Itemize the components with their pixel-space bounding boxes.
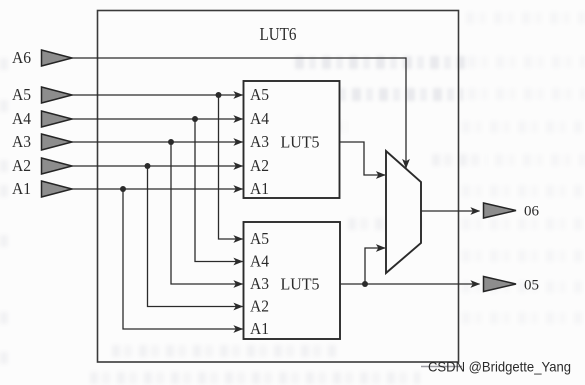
svg-text:A4: A4	[250, 252, 269, 271]
wire A6 to mux select	[71, 58, 406, 168]
wire mux output to O6 buffer	[421, 210, 480, 212]
svg-text:05: 05	[524, 278, 539, 294]
svg-text:A1: A1	[250, 179, 269, 198]
output buffer O6	[484, 203, 517, 218]
wire A3 to upper LUT5 pin A3	[71, 141, 243, 143]
svg-text:06: 06	[524, 204, 540, 220]
svg-text:A1: A1	[250, 319, 269, 338]
svg-text:A3: A3	[250, 274, 269, 293]
svg-text:A4: A4	[12, 109, 31, 128]
junction dot A4	[192, 116, 198, 122]
junction dot A1	[120, 186, 126, 192]
svg-text:A2: A2	[12, 156, 31, 175]
wire A5 branch to lower LUT5 pin A5	[219, 95, 243, 239]
output buffer O5	[484, 277, 517, 292]
junction dot A3	[168, 139, 174, 145]
mux	[386, 151, 421, 273]
input buffer A1	[42, 181, 73, 197]
svg-text:LUT5: LUT5	[281, 133, 320, 152]
junction dot A5	[216, 92, 222, 98]
svg-text:A5: A5	[250, 229, 269, 248]
decorative background ghost text layer	[466, 12, 585, 24]
svg-text:A6: A6	[12, 48, 31, 67]
svg-text:A1: A1	[12, 179, 31, 198]
svg-text:LUT5: LUT5	[281, 275, 320, 294]
svg-text:A5: A5	[250, 85, 269, 104]
lower LUT5 block	[244, 222, 341, 339]
wire branch to mux input I0	[365, 248, 385, 284]
watermark strikethrough	[421, 366, 462, 368]
svg-text:A2: A2	[250, 297, 269, 316]
input buffer A2	[42, 158, 73, 174]
svg-text:LUT6: LUT6	[260, 24, 297, 44]
upper LUT5 block	[244, 81, 340, 198]
wire A3 branch to lower LUT5 pin A3	[171, 142, 243, 284]
junction dot on O5 wire	[362, 281, 368, 287]
wire A4 branch to lower LUT5 pin A4	[195, 119, 243, 262]
wire A2 to upper LUT5 pin A2	[71, 165, 243, 167]
wire A5 to upper LUT5 pin A5	[71, 94, 243, 96]
svg-text:A4: A4	[250, 109, 269, 128]
wire A1 branch to lower LUT5 pin A1	[123, 189, 243, 329]
svg-text:A2: A2	[250, 156, 269, 175]
wire lower LUT5 output to O5 buffer	[340, 283, 480, 285]
junction dot A2	[145, 163, 151, 169]
wire A2 branch to lower LUT5 pin A2	[148, 166, 243, 307]
outer block LUT6	[98, 11, 459, 363]
input buffer A5	[42, 87, 73, 103]
svg-text:A3: A3	[12, 132, 31, 151]
wire upper LUT5 output to mux input I1	[340, 142, 386, 175]
input buffer A3	[42, 134, 73, 150]
svg-text:A3: A3	[250, 132, 269, 151]
wire A1 to upper LUT5 pin A1	[71, 188, 243, 190]
input buffer A4	[42, 111, 73, 127]
input buffer A6	[42, 50, 73, 66]
svg-text:CSDN @Bridgette_Yang: CSDN @Bridgette_Yang	[428, 359, 571, 375]
svg-text:A5: A5	[12, 85, 31, 104]
wire A4 to upper LUT5 pin A4	[71, 118, 243, 120]
